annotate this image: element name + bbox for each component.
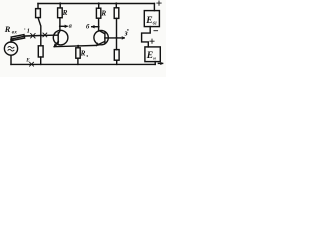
svg-text:з: з (124, 29, 128, 38)
junction dot (59, 2, 61, 4)
junction dot (77, 45, 79, 47)
wire to transistor T2 (98, 18, 100, 31)
output tap a arrow (60, 25, 67, 27)
svg-text:1: 1 (27, 28, 30, 35)
top supply rail (38, 3, 154, 5)
wire lower left divider (40, 35, 42, 45)
junction dot (59, 25, 61, 27)
T2 base bar (104, 33, 106, 43)
terminal cross mark (31, 34, 35, 39)
terminal cross on bottom rail (30, 62, 34, 66)
wire rail to battery Eb1 (153, 4, 155, 11)
svg-text:б1: б1 (153, 21, 157, 26)
T1 base bar (57, 33, 59, 43)
Eb1 bottom lead (142, 27, 151, 47)
label input2 dot (127, 29, 128, 31)
resistor Re (76, 48, 80, 58)
junction dot (115, 2, 117, 4)
svg-text:R: R (62, 9, 68, 17)
wire to bottom rail (116, 60, 118, 64)
Re wire (77, 46, 79, 48)
collector resistor R1 wire (59, 4, 61, 8)
right divider wire top (115, 4, 117, 8)
plus sign mid (150, 39, 154, 43)
svg-text:н: н (153, 56, 156, 61)
transistor T1 circle (53, 30, 68, 45)
resistor R (left collector) (58, 8, 63, 18)
wire (38, 18, 41, 36)
svg-text:·: · (24, 27, 26, 33)
resistor (lower left divider) (38, 46, 43, 57)
svg-text:э: э (85, 53, 88, 58)
T2 collector diagonal (100, 31, 105, 34)
wire source top (10, 39, 12, 42)
svg-text:Е: Е (25, 57, 30, 63)
T1 emitter arrowhead (54, 44, 57, 47)
En bottom lead (154, 62, 156, 65)
input 2 arrowhead (122, 37, 124, 39)
battery box En (145, 47, 160, 62)
arrow bottom right (158, 62, 162, 64)
collector resistor R2 wire (98, 4, 100, 9)
T2 base line input 2 (105, 37, 124, 39)
junction dot (98, 2, 100, 4)
T1 emitter diagonal (54, 41, 58, 46)
sine marks in source (8, 46, 14, 48)
input line 1 (11, 35, 58, 39)
output tap b arrow (92, 26, 99, 28)
T1 collector diagonal (58, 31, 60, 34)
resistor (lower right divider) (114, 50, 119, 61)
junction dot (116, 37, 118, 39)
terminal cross mark (43, 33, 47, 37)
transistor T2 circle (94, 30, 108, 44)
svg-text:R: R (100, 9, 106, 17)
resistor Rvx horizontal (input) (11, 35, 24, 41)
resistor R (right collector) (96, 8, 100, 18)
plus sign top right (157, 1, 161, 5)
svg-text:а: а (69, 23, 73, 30)
wire to bottom rail (40, 57, 42, 64)
resistor R (upper left divider) (36, 9, 41, 18)
minus sign (154, 30, 158, 32)
signal source circle (4, 42, 17, 55)
svg-text:вх: вх (12, 30, 18, 35)
right divider wire (116, 18, 118, 49)
wire source bottom (10, 55, 12, 64)
svg-text:б: б (86, 24, 90, 31)
Re wire to rail (77, 58, 79, 64)
bottom rail (11, 63, 155, 65)
emitter bus (54, 45, 96, 46)
svg-text:R: R (4, 25, 11, 34)
svg-text:Е: Е (146, 50, 153, 61)
T2 emitter diagonal (97, 41, 105, 45)
svg-text:Е: Е (145, 15, 152, 26)
T2 emitter arrowhead (97, 43, 100, 46)
junction dot (98, 26, 100, 28)
resistor (upper right divider) (114, 8, 119, 19)
wire left divider top (37, 4, 39, 9)
svg-text:R: R (80, 49, 86, 57)
battery box Eb1 (144, 11, 159, 27)
wire to transistor T1 (59, 18, 61, 31)
